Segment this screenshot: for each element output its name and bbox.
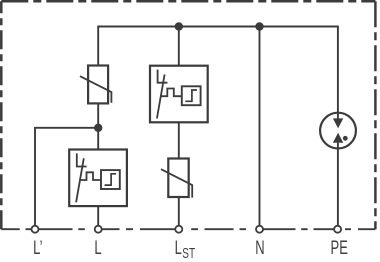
wire: varistor R1 bottom lead through node to box U2 [97, 103, 99, 149]
junction node on top bus at LST column [175, 22, 183, 30]
svg-text:L’: L’ [33, 237, 42, 258]
terminal L [95, 226, 102, 233]
wire: box U2 bottom lead to terminal L [97, 206, 99, 226]
wire: isolating spark gap F1 to terminal PE [337, 143, 339, 226]
svg-text:N: N [255, 237, 264, 258]
varistor R1 (L column) [80, 66, 111, 104]
device outline dash-dot border: top side [1, 0, 375, 3]
wire: N conductor [259, 27, 261, 226]
terminal N [256, 226, 263, 233]
triggered spark gap box U1 (top, LST column) [150, 66, 208, 123]
wire: top bus [97, 26, 339, 28]
device outline dash-dot border: left side [0, 1, 3, 229]
device outline dash-dot border: right side [374, 1, 377, 229]
svg-text:PE: PE [331, 237, 348, 258]
wire: L' riser and horizontal to node at L column [35, 128, 98, 226]
junction node at L column mid (L' branch) [94, 124, 102, 132]
bottom terminal bus (dash-dot line through terminals) [1, 228, 375, 230]
terminal LST [175, 226, 182, 233]
wire: top lead of spark gap box U1 [178, 27, 180, 66]
terminal L' [32, 226, 39, 233]
wire: varistor R2 bottom lead to terminal LST [178, 197, 180, 226]
svg-text:L: L [94, 237, 101, 258]
wire: box U1 to varistor R2 [178, 122, 180, 158]
svg-text:ST: ST [182, 244, 195, 262]
triggered spark gap box U2 (lower left, L column) [69, 150, 127, 207]
wire: PE drop from top bus to isolating spark gap F1 [337, 27, 339, 118]
terminal PE [334, 226, 341, 233]
isolating spark gap F1 (circle with opposing arrows, PE column) [320, 113, 356, 149]
wire: varistor R1 top lead [97, 27, 99, 65]
varistor R2 (LST column) [161, 159, 192, 198]
junction node on top bus at N column [255, 22, 263, 30]
svg-text:L: L [175, 237, 182, 258]
